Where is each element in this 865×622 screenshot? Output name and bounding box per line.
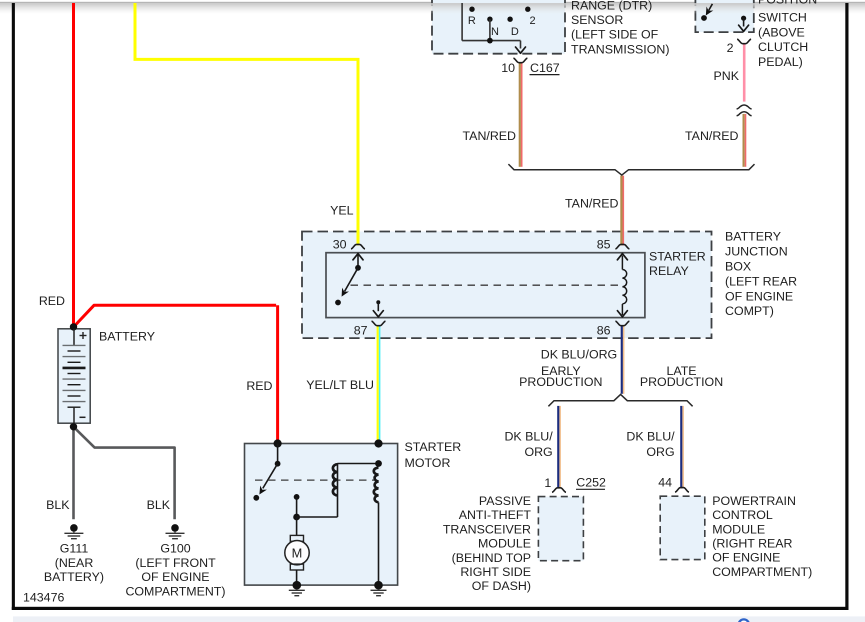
svg-text:TAN/RED: TAN/RED bbox=[685, 129, 739, 143]
svg-text:R: R bbox=[468, 15, 476, 27]
svg-text:MOTOR: MOTOR bbox=[405, 456, 451, 470]
svg-text:86: 86 bbox=[597, 324, 611, 338]
svg-text:143476: 143476 bbox=[23, 591, 64, 605]
svg-text:COMPARTMENT): COMPARTMENT) bbox=[125, 584, 225, 598]
svg-text:44: 44 bbox=[658, 476, 672, 490]
svg-text:2: 2 bbox=[529, 15, 535, 27]
svg-text:DK BLU/ORG: DK BLU/ORG bbox=[541, 348, 617, 362]
svg-text:BLK: BLK bbox=[147, 498, 171, 512]
svg-text:10: 10 bbox=[501, 61, 515, 75]
svg-text:(ABOVE: (ABOVE bbox=[758, 25, 805, 39]
svg-text:ORG: ORG bbox=[646, 445, 674, 459]
svg-text:30: 30 bbox=[333, 238, 347, 252]
svg-text:PEDAL): PEDAL) bbox=[758, 55, 803, 69]
svg-text:DK BLU/: DK BLU/ bbox=[626, 430, 675, 444]
svg-text:OF ENGINE: OF ENGINE bbox=[725, 289, 793, 303]
svg-text:BATTERY): BATTERY) bbox=[44, 570, 104, 584]
svg-text:BATTERY: BATTERY bbox=[99, 329, 155, 343]
svg-text:(NEAR: (NEAR bbox=[55, 556, 94, 570]
svg-text:(LEFT REAR: (LEFT REAR bbox=[725, 274, 797, 288]
svg-text:87: 87 bbox=[354, 324, 368, 338]
svg-text:DK BLU/: DK BLU/ bbox=[504, 430, 553, 444]
svg-text:TRANSCEIVER: TRANSCEIVER bbox=[443, 522, 531, 536]
svg-text:G100: G100 bbox=[160, 542, 190, 556]
svg-text:POSITION: POSITION bbox=[758, 0, 817, 6]
svg-text:RED: RED bbox=[246, 379, 272, 393]
svg-text:YEL/LT BLU: YEL/LT BLU bbox=[306, 378, 374, 392]
svg-text:STARTER: STARTER bbox=[405, 440, 462, 454]
svg-text:COMPARTMENT): COMPARTMENT) bbox=[712, 565, 812, 579]
svg-text:C167: C167 bbox=[530, 61, 560, 75]
svg-text:(BEHIND TOP: (BEHIND TOP bbox=[452, 551, 531, 565]
svg-text:COMPT): COMPT) bbox=[725, 304, 774, 318]
svg-text:ANTI-THEFT: ANTI-THEFT bbox=[459, 508, 532, 522]
svg-text:PNK: PNK bbox=[714, 69, 740, 83]
svg-text:STARTER: STARTER bbox=[649, 249, 706, 263]
svg-text:G111: G111 bbox=[60, 542, 89, 556]
svg-text:JUNCTION: JUNCTION bbox=[725, 245, 788, 259]
svg-text:RIGHT SIDE: RIGHT SIDE bbox=[460, 565, 531, 579]
svg-text:ORG: ORG bbox=[524, 445, 552, 459]
svg-text:(LEFT SIDE OF: (LEFT SIDE OF bbox=[571, 28, 659, 42]
svg-text:CLUTCH: CLUTCH bbox=[758, 40, 808, 54]
svg-text:RED: RED bbox=[39, 294, 65, 308]
svg-text:2: 2 bbox=[727, 41, 734, 55]
svg-text:(RIGHT REAR: (RIGHT REAR bbox=[712, 537, 792, 551]
svg-text:PRODUCTION: PRODUCTION bbox=[640, 375, 723, 389]
svg-text:PRODUCTION: PRODUCTION bbox=[519, 375, 602, 389]
svg-text:D: D bbox=[511, 26, 519, 38]
svg-text:RELAY: RELAY bbox=[649, 264, 689, 278]
svg-text:N: N bbox=[491, 26, 499, 38]
svg-text:TRANSMISSION): TRANSMISSION) bbox=[571, 42, 669, 56]
svg-text:MODULE: MODULE bbox=[712, 522, 765, 536]
svg-text:CONTROL: CONTROL bbox=[712, 508, 773, 522]
svg-text:YEL: YEL bbox=[330, 204, 354, 218]
svg-text:MODULE: MODULE bbox=[478, 537, 531, 551]
svg-text:BOX: BOX bbox=[725, 260, 751, 274]
svg-text:BATTERY: BATTERY bbox=[725, 230, 781, 244]
svg-text:85: 85 bbox=[597, 238, 611, 252]
svg-text:M: M bbox=[292, 545, 303, 560]
svg-text:(LEFT FRONT: (LEFT FRONT bbox=[135, 556, 216, 570]
svg-text:C252: C252 bbox=[576, 475, 606, 489]
svg-text:OF DASH): OF DASH) bbox=[472, 579, 531, 593]
svg-text:OF ENGINE: OF ENGINE bbox=[141, 570, 209, 584]
svg-text:BLK: BLK bbox=[46, 498, 70, 512]
svg-text:OF ENGINE: OF ENGINE bbox=[712, 551, 780, 565]
svg-text:SWITCH: SWITCH bbox=[758, 10, 807, 24]
svg-text:1: 1 bbox=[544, 476, 551, 490]
svg-text:TAN/RED: TAN/RED bbox=[565, 196, 619, 210]
svg-text:TAN/RED: TAN/RED bbox=[463, 129, 517, 143]
svg-text:POWERTRAIN: POWERTRAIN bbox=[712, 494, 796, 508]
svg-text:RANGE (DTR): RANGE (DTR) bbox=[571, 0, 652, 13]
svg-text:SENSOR: SENSOR bbox=[571, 13, 623, 27]
svg-text:PASSIVE: PASSIVE bbox=[479, 494, 531, 508]
